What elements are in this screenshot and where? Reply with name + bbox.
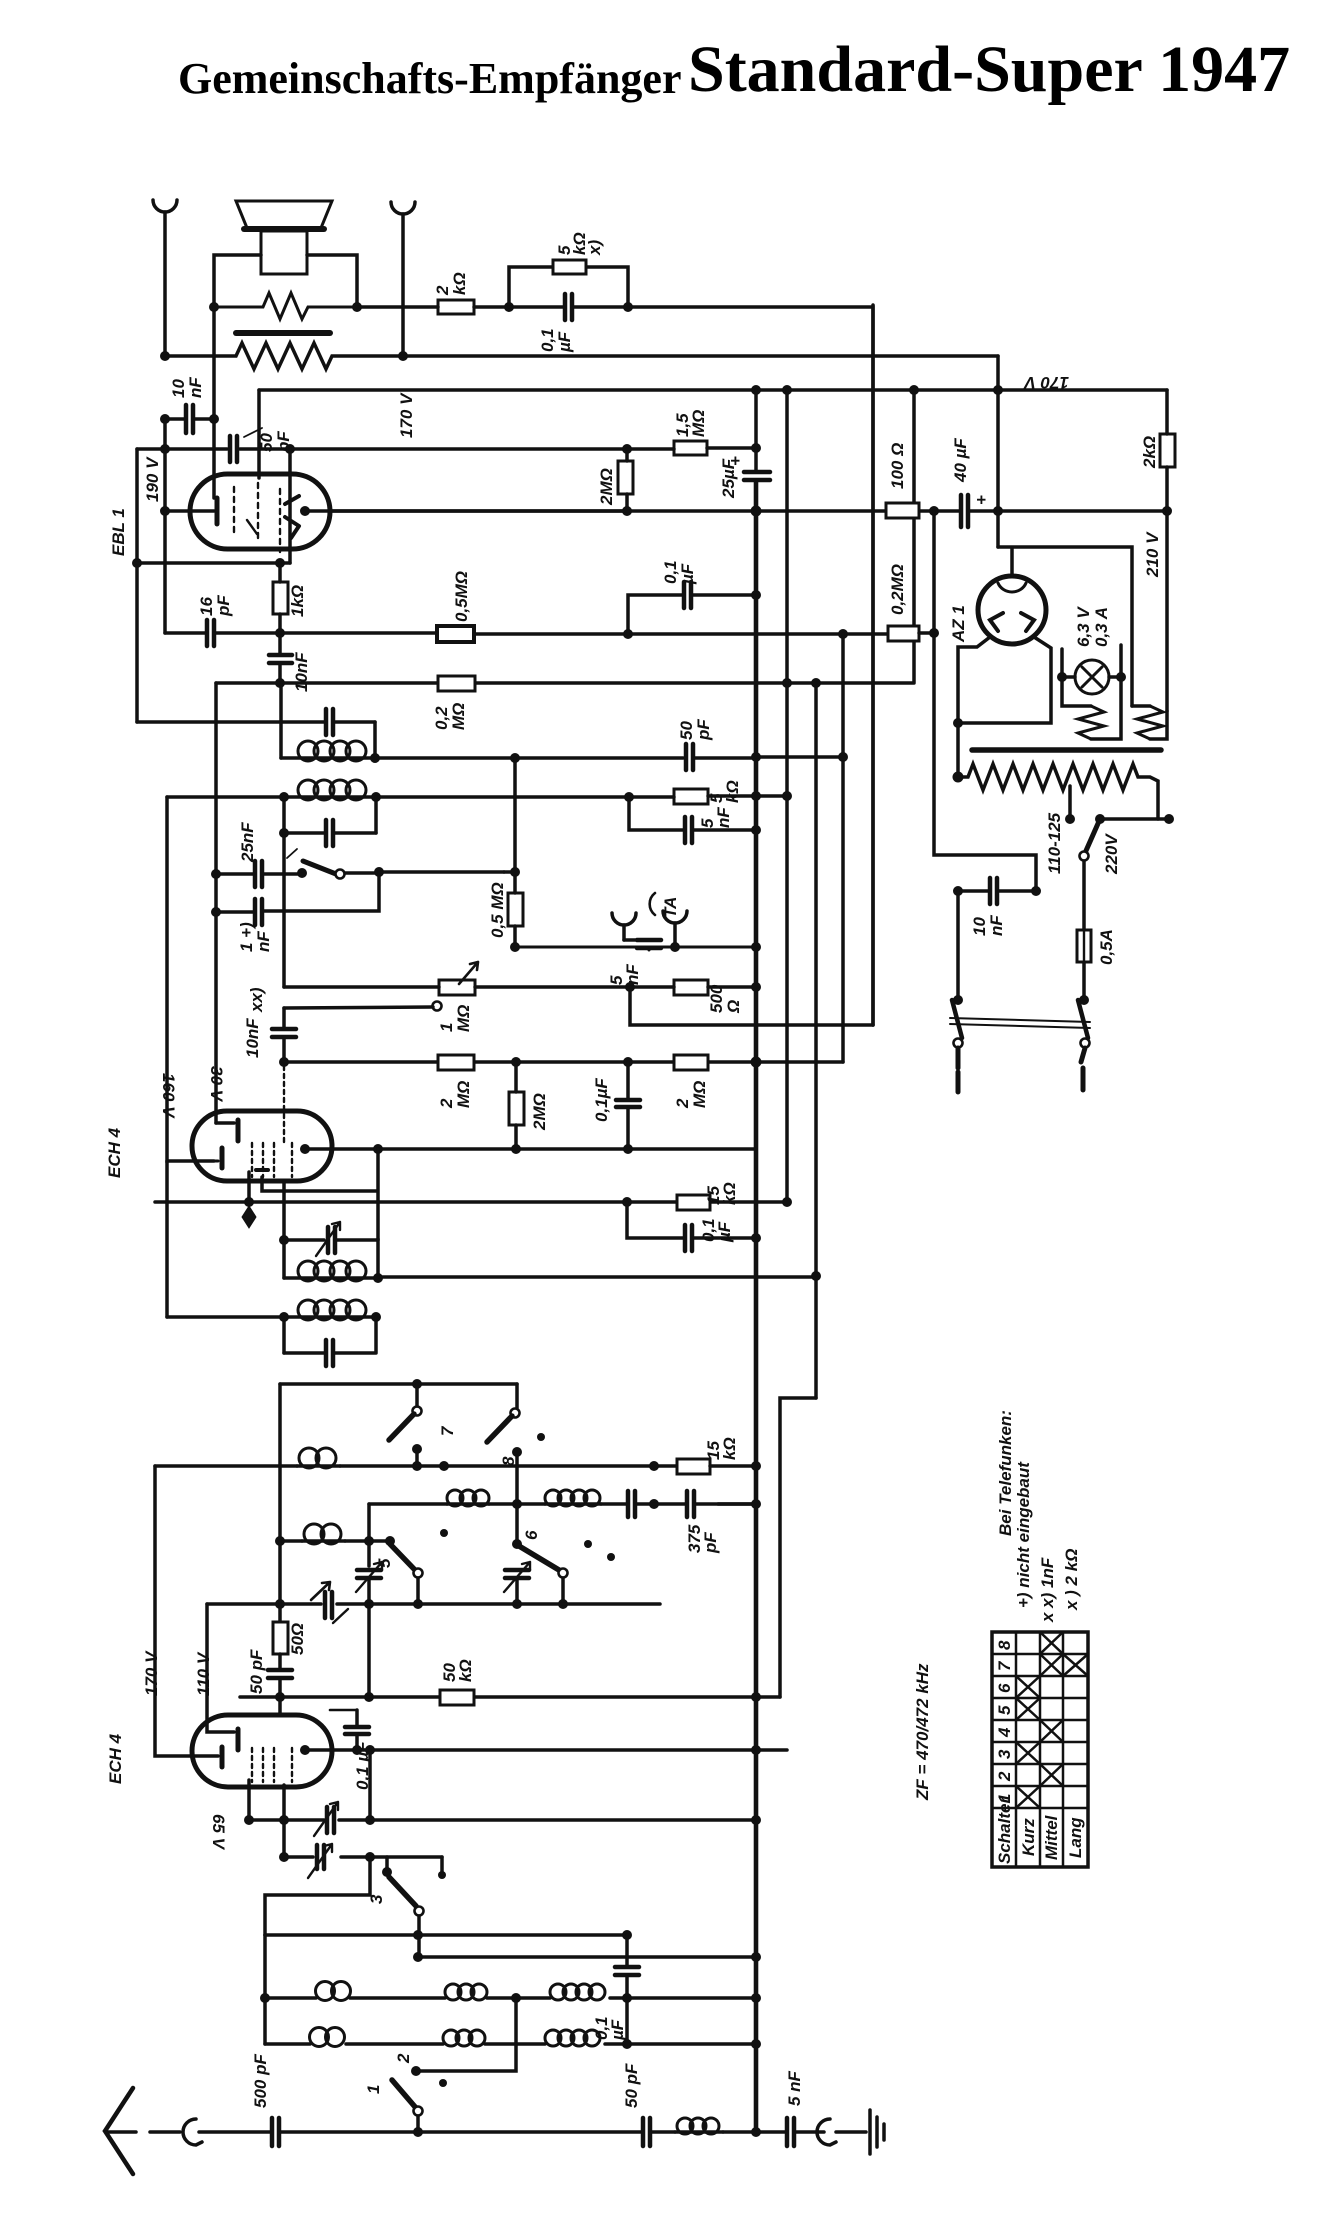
node x509/y307 [504, 302, 514, 312]
node x418/y1935 [413, 1930, 423, 1940]
wire 0,1uF to thick rail [693, 593, 756, 597]
ECH4-1 grid1 lead tick [214, 1160, 218, 1163]
capacitor 50pF k plates [268, 1670, 292, 1678]
node x998/y511 [993, 506, 1003, 516]
capacitor 50pF IF plates [686, 744, 693, 770]
winding rect zigzag [1137, 706, 1163, 739]
svg-text:25µF: 25µF [719, 458, 738, 499]
wire pot out down and right y=1025 [630, 987, 873, 1025]
node x369/y1697 [364, 1692, 374, 1702]
wire row E y=1504 left [369, 1502, 447, 1506]
node x137/y563 [132, 558, 142, 568]
AZ1 inner top arc [998, 583, 1026, 592]
output transformer primary winding (zigzag) [214, 293, 357, 319]
node x627/y511 [622, 506, 632, 516]
node x417/y1384 [412, 1379, 422, 1389]
node x417/y1449 [412, 1444, 422, 1454]
wire 10nF mains right [999, 889, 1036, 893]
svg-text:25nF: 25nF [238, 822, 257, 863]
wire 1,5M left lead [627, 447, 674, 451]
node x290/y449 [285, 444, 295, 454]
rail x=934 (0,2M to mains) [934, 511, 1036, 891]
EBL1 cathode bar [215, 498, 220, 524]
wire 50pF to choke [652, 2130, 675, 2134]
node x265/y1998 [260, 1993, 270, 2003]
wire y=1820 osc row [249, 1818, 756, 1822]
wire 1k to 16pF rail [278, 614, 282, 653]
table column line 1 [1015, 1632, 1018, 1867]
wire 5nF to hook [796, 2130, 824, 2134]
svg-text:50Ω: 50Ω [288, 1623, 307, 1655]
svg-text:2MΩ: 2MΩ [530, 1093, 549, 1131]
node x516/y1149 [511, 1144, 521, 1154]
wire rail y=797 left [167, 795, 284, 799]
svg-text:5 nF: 5 nF [785, 2070, 804, 2106]
wire x=627 down [625, 1935, 629, 1965]
row E coil 2 [545, 1502, 601, 1506]
wire row E mid [489, 1502, 545, 1506]
wire y=307 speaker rail to 2k [357, 305, 438, 309]
node x370/y1820 [365, 1815, 375, 1825]
winding tap lead [1068, 786, 1072, 819]
ECH4-1 triode grid lead [216, 1121, 234, 1125]
IFT2 coil on rail 797 [284, 795, 376, 799]
ECH4-1 triode anode bar [256, 1168, 268, 1172]
trimmer arrow osc2 [314, 1802, 338, 1836]
switch 8 arm [487, 1416, 512, 1442]
node x958/y891 [953, 886, 963, 896]
wire anode lead right y=1149 [305, 1147, 378, 1151]
svg-text:3: 3 [995, 1749, 1014, 1759]
wire speaker loop left [214, 255, 261, 307]
node x787/y796 [782, 791, 792, 801]
svg-text:1,5MΩ: 1,5MΩ [673, 410, 708, 437]
wire y=449 to 2M node [290, 447, 627, 451]
winding AZ1-filament stub left [1132, 704, 1150, 708]
EBL1 grid g1 dashed [233, 487, 235, 537]
wire x=284 wiper down to 10nF xx [282, 1008, 286, 1027]
node x516/y1998 [511, 1993, 521, 2003]
EBL1 grid g3 dashed [279, 489, 281, 552]
switch 1 arm [392, 2080, 416, 2108]
svg-text:Bei Telefunken:: Bei Telefunken: [996, 1410, 1015, 1536]
svg-text:50 pF: 50 pF [247, 1649, 266, 1694]
ECH4-1 osc grid dashed vertical [283, 1066, 285, 1143]
node plug left [953, 995, 963, 1005]
node x390/y1541 [385, 1536, 395, 1546]
wire x=280 tube to 1k [278, 563, 282, 582]
node lamp left [1057, 672, 1067, 682]
tube ECH4 no2 envelope [192, 1715, 332, 1787]
wire 5k/cap left lead [509, 305, 563, 309]
node x370/y1857 [365, 1852, 375, 1862]
TA jack Y left [612, 913, 636, 925]
node x216/y912 [211, 907, 221, 917]
switch 6 circle [559, 1569, 568, 1578]
wire osc cap right to stub [337, 1238, 378, 1242]
resistor 100 Ohm [886, 503, 919, 518]
ECH4-1 triode grid bar [236, 1120, 241, 1141]
wire x=958 to winding start [956, 723, 960, 777]
svg-text:EBL 1: EBL 1 [109, 508, 128, 556]
svg-text:100 Ω: 100 Ω [888, 443, 907, 489]
svg-text:xx): xx) [247, 987, 266, 1013]
node x369/y1541 [364, 1536, 374, 1546]
wire x=155 rowA down to tube2 [155, 1466, 218, 1756]
wire 170V rail y=390 [259, 388, 1167, 392]
node x216/y874 [211, 869, 221, 879]
wire 0,1uF t2 top link [330, 1709, 357, 1712]
wire choke to V1 [723, 2130, 756, 2134]
switch 7 arm [389, 1414, 414, 1440]
svg-text:7: 7 [995, 1660, 1014, 1671]
node x284/y1062 [279, 1057, 289, 1067]
ECH4-1 cathode line down [247, 1172, 251, 1202]
wire 0,5M vert top lead [513, 758, 517, 893]
output transformer secondary winding (zigzag) on 356 rail [165, 343, 403, 369]
wire x=1084 circle down to fuse [1082, 861, 1086, 930]
wire 10nF to rail y=683 [278, 665, 282, 683]
wire x369 below row C [367, 1604, 371, 1697]
resistor 50kOhm [440, 1690, 474, 1705]
wire rail y=1935 [265, 1933, 627, 1937]
row H coil 1 [310, 2028, 329, 2047]
contact dot b3 [584, 1540, 592, 1548]
trimmer row C slash [333, 1609, 348, 1623]
wire 0,1uF dec branch [627, 1202, 683, 1238]
IFT3 right stub [376, 1239, 380, 1278]
wire bottom rail middle [418, 2130, 641, 2134]
node x958/y777 big [953, 772, 964, 783]
plug separation rails [950, 1018, 1090, 1028]
node x787/y1202 [782, 1197, 792, 1207]
wire 5k leads [629, 796, 787, 797]
node x305/y511 [300, 506, 310, 516]
ECH4-2 osc grid line down [282, 1785, 286, 1820]
node x214/y307 [209, 302, 219, 312]
node x756/y448 [751, 443, 761, 453]
winding 6,3V zigzag [1078, 706, 1104, 739]
wire 25nF to contact [264, 872, 302, 876]
svg-text:Schalter: Schalter [995, 1796, 1014, 1864]
capacitor 0,1uF t2 plates [345, 1727, 369, 1734]
ECH4-1 grid1 bar [220, 1148, 225, 1168]
node x675/y947 [670, 942, 680, 952]
node x627/y449 [622, 444, 632, 454]
node x515/y872 [510, 867, 520, 877]
wire rail y=356 to right [403, 354, 998, 358]
svg-text:10nF: 10nF [243, 1018, 262, 1058]
trimmer arrow osc1 [316, 1222, 340, 1256]
node x756/y595 [751, 590, 761, 600]
svg-text:0,1µF: 0,1µF [538, 328, 574, 353]
svg-text:220V: 220V [1102, 833, 1121, 875]
node x627/y1935 [622, 1930, 632, 1940]
antenna symbol chevron [105, 2088, 133, 2174]
resistor 5kOhm x) parallel branch [509, 267, 628, 307]
node x284/y833 [279, 828, 289, 838]
switch 7 contact stub [415, 1449, 419, 1466]
wire row H y=2044 [265, 2042, 756, 2046]
node x214/y419 [209, 414, 219, 424]
ECH4-2 triode grid bar [236, 1729, 241, 1750]
node x357/y307 [352, 302, 362, 312]
svg-text:210 V: 210 V [1143, 531, 1162, 578]
wire 500 right lead [708, 985, 756, 989]
wire AVC rail y=1062 [284, 1060, 843, 1064]
wire row B to stubs [345, 1539, 390, 1543]
fuse inner line [1083, 930, 1085, 962]
switch 9 contact dot [297, 868, 307, 878]
wire 2M top lead [625, 449, 629, 461]
wire antenna feed dashed [106, 2130, 182, 2134]
wire lamp right leads down [1091, 645, 1121, 739]
wire 50pF to V1 [695, 756, 756, 760]
wire 2k right top/bottom leads [1165, 390, 1169, 511]
node x378/y1149 [373, 1144, 383, 1154]
wire x=284 IFT2 stub down to pot [282, 833, 286, 987]
switch 5 arm [390, 1544, 415, 1570]
speaker cone [236, 201, 332, 228]
ECH4-1 anode node [300, 1144, 310, 1154]
wire 10nFxx to AVC rail [282, 1039, 286, 1062]
contact dot sw2b [439, 2079, 447, 2087]
resistor 15kOhm no2 [677, 1459, 710, 1474]
table X mittel 7 [1040, 1654, 1063, 1676]
wire circle5 to row C [416, 1578, 420, 1604]
node x376/y1317 [371, 1312, 381, 1322]
node x357/y1750 [352, 1745, 362, 1755]
row H coil 2 [443, 2030, 459, 2046]
node x756/y2132 [751, 2127, 761, 2137]
wire y=449 cap to anode node [240, 447, 290, 451]
svg-text:110-125: 110-125 [1045, 812, 1064, 874]
wire 0,1uF grid bottom lead [626, 1109, 630, 1149]
switch 5 circle [414, 1569, 423, 1578]
row G coil 2 [445, 1984, 461, 2000]
node x280/y1697 [275, 1692, 285, 1702]
node x933/y511 [929, 506, 939, 516]
wire 50ohm to 50pF [278, 1654, 282, 1668]
svg-text:0,2MΩ: 0,2MΩ [888, 564, 907, 615]
svg-text:Gemeinschafts-Empfänger: Gemeinschafts-Empfänger [178, 54, 682, 103]
node x756/y1466 [751, 1461, 761, 1471]
capacitor 375pF plates [628, 1491, 635, 1517]
resistor 50 Ohm body [273, 1622, 288, 1654]
node x418/y2132 [413, 2127, 423, 2137]
stub sw3b [440, 1857, 444, 1875]
wire 1+nF right lead loop [264, 872, 379, 911]
node x165/y419 [160, 414, 170, 424]
node x284/y1857 [279, 1852, 289, 1862]
wire circle6 to row C [561, 1578, 565, 1604]
contact dots floating band area [537, 1433, 545, 1441]
wire 2M bottom lead [625, 494, 629, 511]
node x958/y723 [953, 718, 963, 728]
EBL1 grid g2 dashed [257, 483, 259, 540]
node x628/y634 [623, 629, 633, 639]
capacitor 10nF coupling plates [269, 655, 292, 663]
node x370/y1750 [365, 1745, 375, 1755]
wire y=873 to 0,5M resistor [379, 870, 504, 874]
wire rail y=683 [216, 390, 914, 683]
node plug right [1079, 995, 1089, 1005]
capacitor 5nF gnd plates [787, 2118, 794, 2146]
node x756/y830 [751, 825, 761, 835]
wire x=214 speaker loop to 10nF junction [212, 307, 216, 419]
TA bracket [650, 893, 655, 915]
node x517/y1544 [512, 1539, 522, 1549]
rail V5 x=873 (from 307 corner to 1025) [871, 305, 875, 1025]
trimmer t2 arrow [308, 1844, 332, 1878]
resistor 15kOhm no1 [677, 1195, 710, 1210]
wire 50pFk to tube [278, 1680, 282, 1715]
wire A1 stem x=165 down to transformer rail [163, 212, 167, 356]
capacitor 25uF plates [744, 472, 770, 480]
potentiometer 1MOhm body [439, 980, 475, 995]
fuse 0,5A body [1077, 930, 1091, 962]
svg-text:16pF: 16pF [197, 595, 233, 617]
wire lamp left up/down [1062, 649, 1091, 706]
wire antenna feed [199, 2130, 270, 2134]
autotransformer main winding zigzag [958, 764, 1158, 819]
switch 3 circle [415, 1907, 424, 1916]
output transformer core bar [236, 330, 330, 336]
wire x=280 from 1384 to 1715 [278, 1384, 282, 1622]
node x816/y683 [811, 678, 821, 688]
IFT3 secondary cap wire [284, 1317, 376, 1353]
node x756/y796 [751, 791, 761, 801]
wire x=284 tube down to coil [282, 1181, 286, 1278]
wire x=167 down to IFT3 secondary [165, 1161, 169, 1317]
wire circle3 down to rails [419, 1916, 756, 1957]
wire circle1 to bottom rail [416, 2116, 420, 2132]
wire AZ1 filament right lead [958, 637, 1051, 723]
node x280/y1541 [275, 1536, 285, 1546]
jack symbol A2 [391, 202, 415, 214]
EBL1 anode angle marks [285, 496, 299, 538]
node x629/y797 [624, 792, 634, 802]
wire y=947 TA rail [515, 947, 756, 950]
table outer frame [992, 1632, 1088, 1867]
table X kurz 1 [1016, 1786, 1040, 1808]
wire x=137 down left side [135, 449, 139, 722]
trimmer B arrow [356, 1562, 382, 1592]
svg-text:65 V: 65 V [209, 1814, 228, 1851]
table X kurz 5 [1016, 1698, 1040, 1720]
IFT2 bottom cap plates [326, 820, 333, 846]
plug pin left [956, 1048, 961, 1092]
wire B+ rail y=511 [330, 509, 1167, 513]
wire x=165 down to cathode [163, 419, 167, 511]
svg-text:170 V: 170 V [397, 392, 416, 438]
wire wiper to left corner [284, 1007, 433, 1008]
wire V1 to 5nF [756, 2130, 785, 2134]
node x376/y797 [371, 792, 381, 802]
node x515/y758 [510, 753, 520, 763]
IFT3 secondary cap plates [326, 1340, 333, 1366]
wire pot right lead [475, 985, 630, 989]
wire 2M vert top lead [514, 1062, 518, 1092]
wire 0,1uF b down [625, 1977, 629, 2044]
node x284/y1317 [279, 1312, 289, 1322]
capacitor 10nF (left) plates [186, 405, 193, 433]
svg-text:8: 8 [995, 1640, 1014, 1650]
wire y=634 16pF-node to 0,5M [280, 631, 437, 635]
node x654/y1466 [649, 1461, 659, 1471]
node x378/y1278 [373, 1273, 383, 1283]
svg-text:2: 2 [394, 2053, 413, 2064]
capacitor 1+)nF plates [255, 899, 262, 925]
svg-text:10nF: 10nF [169, 377, 205, 398]
wire diode plate y=563 [137, 561, 290, 565]
svg-text:AZ 1: AZ 1 [949, 605, 968, 643]
wire rail y=1276 to V3 [378, 1275, 816, 1279]
wire 16pF left lead [165, 631, 205, 635]
IFT1 top capacitor plates [326, 709, 333, 735]
speaker cone mouth thick bar [244, 226, 324, 232]
contact dot b2 [440, 1529, 448, 1537]
wire 25nF left lead [216, 872, 253, 876]
wire osc cap y=1240 left [284, 1238, 324, 1242]
node x756/y1697 [751, 1692, 761, 1702]
TA jack left stem [622, 925, 626, 940]
ECH4-2 grid1 bar [220, 1747, 225, 1767]
node x387/y1872 [382, 1867, 392, 1877]
speaker voice-coil box [261, 231, 307, 274]
capacitor 40uF plates [961, 495, 968, 527]
svg-text:6,3 V0,3 A: 6,3 V0,3 A [1074, 606, 1111, 647]
svg-text:190 V: 190 V [143, 456, 162, 502]
node x627/y1202 [622, 1197, 632, 1207]
svg-text:0,1µF: 0,1µF [592, 1078, 611, 1122]
switch 9 arm [303, 861, 336, 874]
tube AZ1 envelope [978, 576, 1046, 644]
svg-text:1kΩ: 1kΩ [288, 585, 307, 617]
node x756/y1504 [751, 1499, 761, 1509]
pilot lamp circle with cross [1075, 660, 1109, 694]
wire x=214b corner rail683 down to ECH4 triode grid [214, 683, 218, 1123]
node x755/y389 [751, 385, 761, 395]
capacitor osc coupling plates [328, 1227, 335, 1253]
svg-text:10nF: 10nF [970, 915, 1006, 936]
wire x=207 rowC down to tube2 [207, 1604, 234, 1732]
IFT3 secondary coil [167, 1315, 376, 1319]
wire rail y=758 to 50pF [375, 756, 683, 760]
svg-text:0,5A: 0,5A [1097, 929, 1116, 965]
wire y=873 continues to 0,5M lead [504, 870, 515, 874]
svg-text:0,1µF: 0,1µF [661, 560, 697, 585]
EBL1 anode lead x=290 down through tube [288, 449, 292, 563]
node x417/y1466 [412, 1461, 422, 1471]
EBL1 inner shield line [247, 520, 257, 534]
node x756/y1957 [751, 1952, 761, 1962]
svg-text:5: 5 [995, 1705, 1014, 1715]
wire 1,5M right lead [707, 446, 756, 450]
capacitor 375pF body2 plates [687, 1491, 694, 1517]
switch 220V pivot node [1095, 814, 1105, 824]
resistor 0,2MOhm (PS) [888, 626, 919, 641]
node x914/y389 [909, 385, 919, 395]
wire AZ1 top to 547 rail [998, 547, 1132, 706]
node x379/y872 [374, 867, 384, 877]
node x756/y2044 [751, 2039, 761, 2049]
capacitor 5nF TA plates [637, 940, 661, 948]
resistor 0,2MOhm (rail 683) [438, 676, 475, 691]
wire 757 rail V1 to V4 [756, 755, 843, 759]
antenna hook [183, 2119, 202, 2145]
ECH4-2 cathode line down [247, 1780, 251, 1820]
